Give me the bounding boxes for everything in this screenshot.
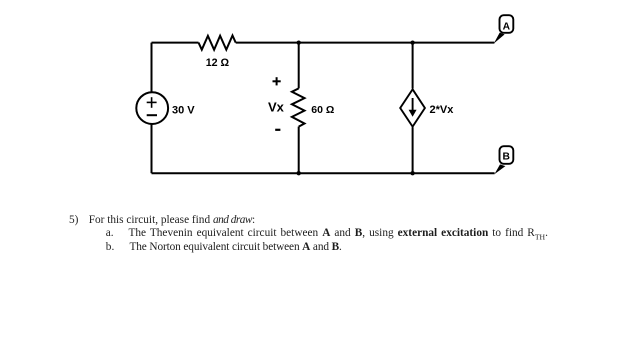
label plus polarity of Vx [273,77,281,85]
resistor 60 ohm zigzag [292,88,305,126]
wire: bottom rail [152,172,495,174]
node: junction bottom of 60 ohm [297,171,301,175]
wire: stub below dependent source [412,127,414,173]
wire: stub above 60 ohm resistor [298,43,300,89]
terminal A pointer wedge [494,33,505,44]
resistor 12 ohm zigzag [199,36,236,50]
wire: top rail right segment [236,42,495,44]
wire: top rail left segment [152,42,199,44]
node: junction top of 60 ohm [297,40,301,44]
dependent current source 2*Vx diamond with down arrow [400,89,425,126]
wire: stub below 60 ohm resistor [298,127,300,174]
terminal B pointer wedge [495,164,506,174]
terminal B box [500,146,514,164]
terminal A box [500,15,514,33]
voltage source 30 V circle with plus minus [136,92,168,124]
label minus polarity of Vx [275,129,280,131]
wire: left rail lower segment [151,124,153,174]
wire: left rail upper segment [151,43,153,93]
wire: stub above dependent source [412,43,414,89]
node: junction top of dependent source [410,40,414,44]
node: junction bottom of dependent source [410,171,414,175]
